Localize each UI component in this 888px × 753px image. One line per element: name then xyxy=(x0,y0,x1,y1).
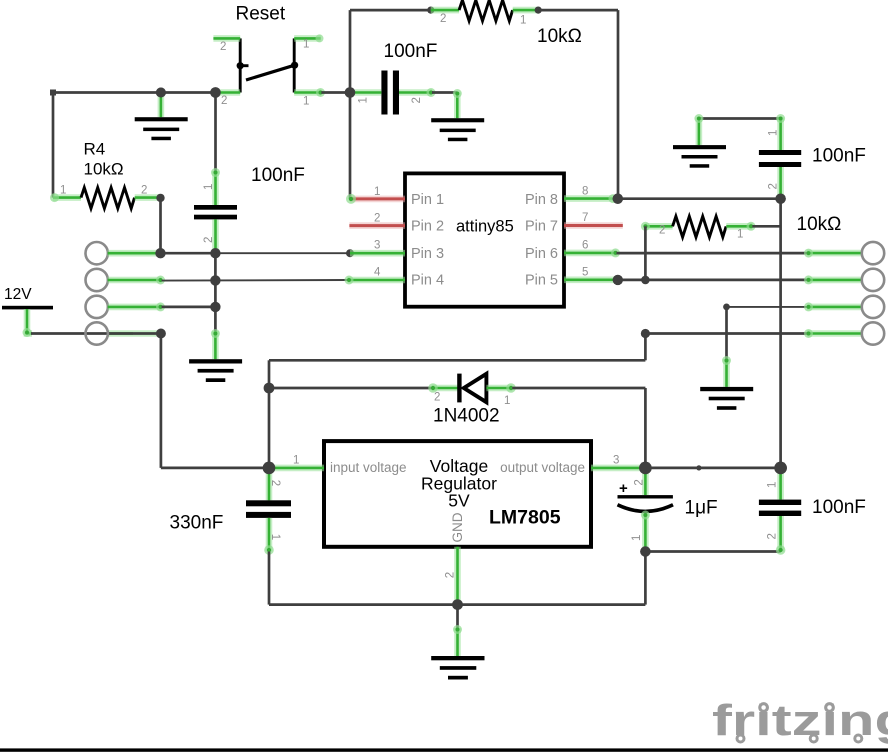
wire top-left horizontal net xyxy=(53,91,216,94)
svg-text:1: 1 xyxy=(520,15,526,27)
svg-text:1: 1 xyxy=(358,97,370,103)
connector pad J5 xyxy=(862,242,884,264)
svg-text:1: 1 xyxy=(269,534,281,540)
resistor R4 pin2 green xyxy=(135,194,161,201)
wire top right horizontal xyxy=(538,9,618,12)
svg-text:1: 1 xyxy=(293,455,299,467)
wire top horizontal to R2 xyxy=(350,9,431,12)
svg-text:1: 1 xyxy=(60,185,66,197)
junction repaint switch node xyxy=(210,87,221,98)
svg-text:3: 3 xyxy=(374,240,380,252)
svg-text:Pin 5: Pin 5 xyxy=(525,273,558,289)
wire switch to C1 node xyxy=(321,91,350,94)
wire rowD to y360 xyxy=(644,334,647,361)
resistor R3 pin2 green corner xyxy=(641,222,673,231)
svg-text:1: 1 xyxy=(737,229,743,241)
junction repaint vcc node xyxy=(774,462,787,475)
wire row1 to pin3 xyxy=(215,252,350,254)
svg-text:Pin 7: Pin 7 xyxy=(525,219,558,235)
wire diode row right xyxy=(512,387,645,390)
wire output green xyxy=(591,465,645,472)
node wire joint xyxy=(427,7,434,14)
svg-text:5V: 5V xyxy=(448,491,470,511)
svg-text:6: 6 xyxy=(582,240,588,252)
connector pad J6 xyxy=(862,269,884,291)
wire to ground G2 xyxy=(432,91,457,94)
wire C1 pin1 green xyxy=(350,89,381,96)
svg-text:12V: 12V xyxy=(4,286,32,303)
svg-text:2: 2 xyxy=(221,95,227,107)
ground G3 xyxy=(673,145,726,168)
wire J4 pin stub green under row xyxy=(108,330,161,337)
svg-text:1μF: 1μF xyxy=(685,498,718,519)
svg-text:1: 1 xyxy=(303,96,309,108)
capacitor C5 1uF pin2 green xyxy=(642,468,649,495)
wire C3 pin1 green xyxy=(776,114,785,150)
junction rowD corner xyxy=(641,329,650,338)
wire R3 pin2 drop xyxy=(644,226,647,280)
junction switch bottom-left xyxy=(210,87,221,98)
capacitor C4 pin1 green xyxy=(264,518,274,555)
svg-text:100nF: 100nF xyxy=(812,497,866,518)
svg-text:R4: R4 xyxy=(84,140,106,159)
wire 12V to input node xyxy=(161,467,269,470)
wire rowC right xyxy=(727,306,808,308)
wire green to G5 xyxy=(453,625,462,656)
svg-text:10kΩ: 10kΩ xyxy=(797,214,842,235)
svg-text:1: 1 xyxy=(631,535,643,541)
wire pin2 red xyxy=(349,222,405,229)
svg-text:330nF: 330nF xyxy=(170,513,224,534)
node wire joint xyxy=(535,7,542,14)
svg-text:1: 1 xyxy=(767,482,779,488)
wire green R2 pin1 xyxy=(513,7,539,14)
ground G4 xyxy=(700,387,753,410)
junction repaint C3 bottom xyxy=(775,194,785,204)
svg-text:Pin 6: Pin 6 xyxy=(525,246,558,262)
wire rowA right xyxy=(617,252,808,255)
pushbutton pin 1 top stub xyxy=(294,34,323,42)
junction input node xyxy=(263,462,276,475)
wire x269 drop to diode row xyxy=(268,360,271,388)
resistor R2 10k top xyxy=(459,0,513,21)
junction gnd node xyxy=(452,599,463,610)
wire pin6 green xyxy=(564,248,620,257)
svg-text:Pin 3: Pin 3 xyxy=(411,246,444,262)
wire drop to output node xyxy=(644,388,647,468)
svg-text:8: 8 xyxy=(582,186,588,198)
junction pin5 node xyxy=(613,275,623,285)
node small joint xyxy=(696,465,701,470)
wire output to vcc vertical xyxy=(645,467,780,470)
junction row4 xyxy=(156,329,166,339)
wire row3 middle xyxy=(162,306,216,309)
regulator U2 LM7805 body xyxy=(324,441,591,547)
wire green into C2 xyxy=(211,168,220,205)
svg-text:10kΩ: 10kΩ xyxy=(537,26,582,47)
capacitor C2 100nF plates xyxy=(194,205,237,219)
svg-text:Pin 8: Pin 8 xyxy=(525,192,558,208)
svg-text:100nF: 100nF xyxy=(384,41,438,62)
wire pin1 red xyxy=(346,194,405,204)
svg-text:Pin 2: Pin 2 xyxy=(411,219,444,235)
wire row1 middle xyxy=(161,252,216,255)
wire row1 green from J1 xyxy=(108,250,161,257)
wire row3 green from J3 xyxy=(108,302,165,311)
wire ground stub green xyxy=(158,93,165,117)
wire vertical x350 top net xyxy=(349,10,352,199)
ground G5 xyxy=(431,656,484,680)
wire C4 down xyxy=(268,552,271,605)
ground G3 stub wire xyxy=(699,117,781,120)
svg-text:1: 1 xyxy=(303,39,309,51)
capacitor C6 pin1 green xyxy=(777,468,784,500)
svg-text:2: 2 xyxy=(269,480,281,486)
wire rowC green to J7 xyxy=(804,302,862,311)
wire left vertical to R4 xyxy=(52,93,55,198)
junction 1uF bottom xyxy=(640,546,650,556)
wire R3 to vcc vertical xyxy=(752,225,780,228)
junction repaint 1uF bottom xyxy=(640,546,650,556)
capacitor C6 pin2 green xyxy=(776,516,786,555)
capacitor C6 100nF plates xyxy=(759,500,801,516)
svg-text:7: 7 xyxy=(582,212,588,224)
svg-text:2: 2 xyxy=(434,392,440,404)
wire rowB green to J6 xyxy=(804,275,862,284)
wire C1 pin2 green xyxy=(399,88,436,97)
wire y360 horizontal xyxy=(269,359,645,362)
connector pad J3 xyxy=(86,296,108,318)
capacitor C1 100nF plates xyxy=(381,71,399,115)
svg-text:100nF: 100nF xyxy=(251,165,305,186)
wire green C2 pin2 to row1 xyxy=(212,219,219,253)
wire rowD right xyxy=(645,332,807,335)
svg-text:2: 2 xyxy=(411,97,423,103)
wire pin7 red xyxy=(564,222,623,229)
diode D1 pin2 green xyxy=(428,383,459,393)
resistor R4 10k xyxy=(81,188,134,209)
capacitor C5 pin1 green xyxy=(641,511,650,552)
IC U1 attiny85 body xyxy=(405,173,564,306)
junction row3 x215 xyxy=(210,302,220,312)
wire vcc top horizontal xyxy=(618,197,781,200)
svg-text:2: 2 xyxy=(444,572,456,578)
diode D1 pin1 green xyxy=(486,383,515,393)
wire vertical x618 down to pin8 xyxy=(617,10,620,199)
junction row1 R4 xyxy=(155,248,165,258)
capacitor C5 1uF polarized xyxy=(618,480,674,511)
connector pad J1 xyxy=(86,242,108,264)
wire pin8 green xyxy=(564,194,618,203)
wire gnd drop xyxy=(456,605,459,629)
wire row2 middle xyxy=(162,279,348,282)
junction repaint output node xyxy=(639,462,652,475)
svg-text:Reset: Reset xyxy=(236,4,286,25)
junction repaint pin8 node xyxy=(613,194,623,204)
wire pin3 green xyxy=(350,250,405,257)
node left wire end xyxy=(50,90,56,96)
svg-text:2: 2 xyxy=(634,479,646,485)
wire C3 pin2 green xyxy=(777,167,784,199)
junction vcc node xyxy=(774,462,787,475)
svg-text:2: 2 xyxy=(659,225,665,237)
ground G6 xyxy=(189,359,242,382)
svg-text:1: 1 xyxy=(203,184,215,190)
wire rowD green to J8 xyxy=(804,329,862,338)
wire green drop to G6 xyxy=(211,329,220,359)
junction R4 pin2 xyxy=(156,194,164,202)
wire R4 down to row1 xyxy=(159,198,162,253)
capacitor C4 330nF plates xyxy=(246,500,291,518)
diode D1 1N4002 xyxy=(459,374,486,403)
wire green R2 pin2 xyxy=(431,7,459,14)
pushbutton S1 body xyxy=(237,38,299,92)
wire green down to G3 xyxy=(694,114,703,145)
capacitor C4 330nF pin2 green xyxy=(266,468,273,500)
wire pin5 green xyxy=(564,276,615,283)
wire vcc vertical x780 xyxy=(779,199,782,468)
wire bottom right horizontal xyxy=(458,603,646,606)
junction repaint input node xyxy=(263,462,276,475)
node pin3 joint xyxy=(346,249,354,257)
junction R3 drop on rowB xyxy=(641,276,650,285)
junction repaint x350 node xyxy=(345,87,356,98)
junction row1 x215 xyxy=(210,248,220,258)
pushbutton pin 2 top stub xyxy=(213,35,240,42)
svg-text:Pin 4: Pin 4 xyxy=(411,273,444,289)
svg-text:2: 2 xyxy=(141,185,147,197)
svg-text:Pin 1: Pin 1 xyxy=(411,192,444,208)
junction ground tap xyxy=(156,88,166,98)
wire GND pin green xyxy=(454,547,461,605)
wire 12V drop to regulator xyxy=(160,334,163,468)
power bar 12V xyxy=(2,306,53,310)
wire diode row left xyxy=(269,387,432,390)
bottom border line xyxy=(0,748,888,751)
wire bottom left horizontal xyxy=(269,603,458,606)
svg-text:input voltage: input voltage xyxy=(330,460,407,475)
svg-text:1: 1 xyxy=(374,186,380,198)
resistor R3 pin1 green xyxy=(726,222,755,231)
wire bottom cap link xyxy=(645,550,780,553)
wire pin4 green xyxy=(345,276,406,285)
svg-text:1: 1 xyxy=(767,130,779,136)
svg-text:5: 5 xyxy=(582,267,588,279)
svg-text:LM7805: LM7805 xyxy=(489,507,561,529)
wire rowA green to J5 xyxy=(804,249,862,258)
connector pad J2 xyxy=(86,269,108,291)
wire ground drop green xyxy=(453,89,462,118)
svg-text:2: 2 xyxy=(203,237,215,243)
svg-text:+: + xyxy=(619,480,628,497)
pushbutton pin 1 bottom stub xyxy=(294,88,325,97)
ground G2 xyxy=(431,118,484,141)
junction pin8 node xyxy=(613,194,623,204)
svg-text:2: 2 xyxy=(767,533,779,539)
svg-text:output voltage: output voltage xyxy=(500,460,585,475)
svg-text:4: 4 xyxy=(374,267,381,279)
wire vertical x215 rows xyxy=(214,253,217,332)
capacitor C3 100nF plates xyxy=(759,150,801,167)
svg-text:2: 2 xyxy=(440,13,446,25)
wire row2 green from J2 xyxy=(108,276,165,285)
wire green to G4 xyxy=(722,356,731,387)
junction repaint ground tap xyxy=(156,88,166,98)
junction output node xyxy=(639,462,652,475)
wire 1uF bottom riser xyxy=(644,552,647,605)
svg-text:2: 2 xyxy=(767,183,779,189)
junction at x350 xyxy=(345,87,356,98)
svg-text:100nF: 100nF xyxy=(812,146,866,167)
resistor R3 10k xyxy=(673,216,727,237)
node rowC corner xyxy=(723,304,730,311)
wire input green xyxy=(269,465,324,472)
ground G1 xyxy=(135,117,188,140)
junction row2 x215 xyxy=(210,275,220,285)
connector pad J4 xyxy=(86,322,108,344)
wire rowB right xyxy=(618,279,807,282)
svg-text:attiny85: attiny85 xyxy=(456,218,514,236)
svg-text:1: 1 xyxy=(504,395,510,407)
wire x269 through diode junction xyxy=(268,388,271,468)
junction diode row left xyxy=(264,383,275,394)
junction C3 bottom xyxy=(775,194,785,204)
svg-text:10kΩ: 10kΩ xyxy=(84,160,124,179)
svg-text:1N4002: 1N4002 xyxy=(433,406,500,427)
connector pad J8 xyxy=(862,322,884,344)
wire 12V green xyxy=(23,309,33,337)
svg-text:3: 3 xyxy=(613,455,619,467)
connector pad J7 xyxy=(862,296,884,318)
svg-text:2: 2 xyxy=(220,41,226,53)
pushbutton pin 2 bottom stub xyxy=(216,89,240,96)
wire rowC drop xyxy=(725,307,728,361)
fritzing logo xyxy=(712,696,888,745)
svg-text:2: 2 xyxy=(374,213,380,225)
wire 12V row4 xyxy=(31,332,161,335)
wire vertical x215 upper xyxy=(214,93,217,173)
svg-text:GND: GND xyxy=(450,512,465,542)
resistor R4 pin1 green xyxy=(50,193,81,202)
